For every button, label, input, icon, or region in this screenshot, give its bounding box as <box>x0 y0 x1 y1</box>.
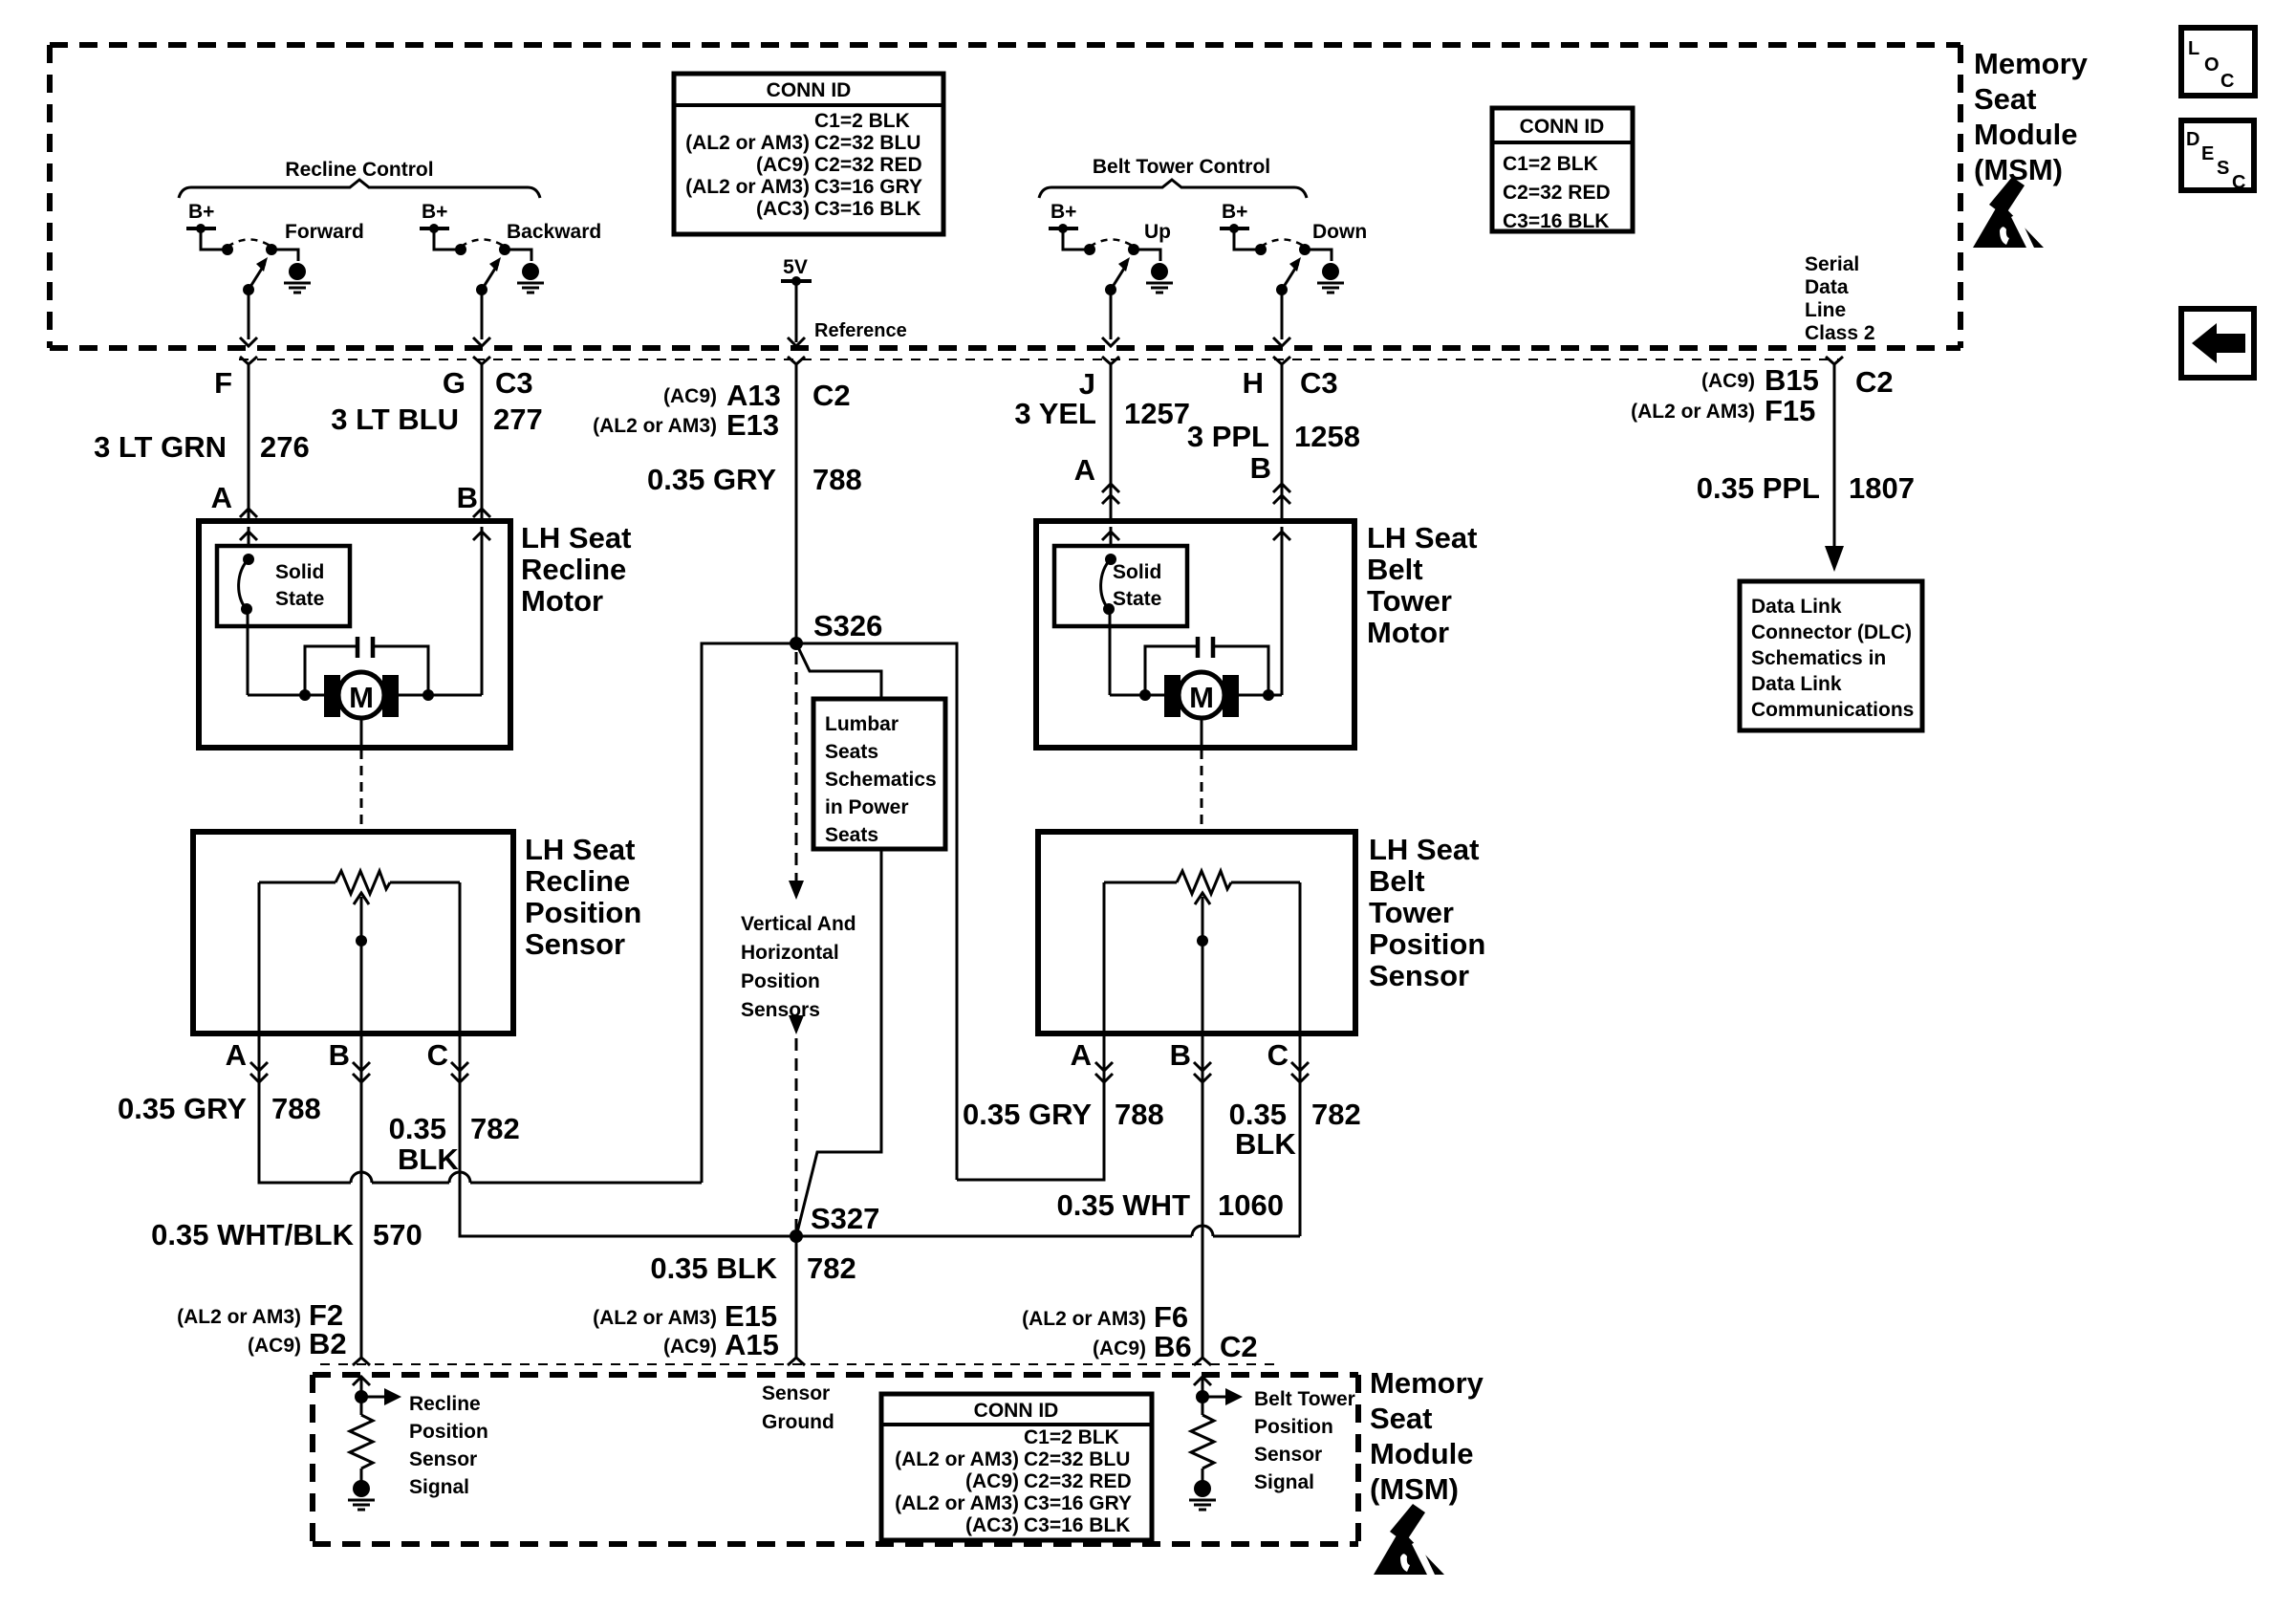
switch S2 Backward (recline) with B+ feed and ground <box>420 201 601 346</box>
wire: belt tower sensor pin B signal down to MSM pin F6/B6 (1060 WHT) <box>1202 1034 1204 1358</box>
connector C3 label (right) <box>1300 366 1338 400</box>
svg-text:LH Seat: LH Seat <box>525 833 635 866</box>
ESD sensitive device symbol (top) <box>1973 177 2044 248</box>
wire: S326 right branch to belt tower sensor pin A (788 GRY) <box>796 643 1104 1180</box>
svg-text:Tower: Tower <box>1369 896 1454 929</box>
svg-text:Memory: Memory <box>1370 1366 1484 1400</box>
svg-text:C3=16 GRY: C3=16 GRY <box>1024 1492 1132 1514</box>
svg-text:Belt: Belt <box>1369 864 1425 898</box>
wire exit chevrons at sensor pin belt C <box>1291 1062 1309 1082</box>
svg-text:BLK: BLK <box>398 1142 459 1176</box>
svg-text:C: C <box>427 1038 448 1072</box>
svg-text:Schematics in: Schematics in <box>1751 647 1886 669</box>
svg-text:S327: S327 <box>811 1202 879 1235</box>
wire H to belt tower motor pin B <box>1273 375 1290 521</box>
pin E13 label (AL2 or AM3) <box>593 408 779 442</box>
LOC nav box <box>2181 28 2255 96</box>
connector fork at MSM pin J <box>1102 357 1119 377</box>
svg-text:Solid: Solid <box>275 561 324 583</box>
svg-text:M: M <box>349 681 374 714</box>
svg-text:1060: 1060 <box>1218 1188 1284 1222</box>
connector fork at MSM pin H <box>1273 357 1290 377</box>
svg-text:3 PPL: 3 PPL <box>1187 420 1269 453</box>
switch S4 Down (belt tower) with B+ feed and ground <box>1220 201 1367 346</box>
svg-text:Module: Module <box>1370 1437 1474 1470</box>
svg-text:F: F <box>214 366 232 400</box>
motor pin A label (belt tower) <box>1074 453 1095 487</box>
pin G label <box>443 366 466 400</box>
svg-text:G: G <box>443 366 466 400</box>
svg-text:Recline: Recline <box>525 864 630 898</box>
mechanical link recline motor to position sensor (dashed) <box>360 750 363 832</box>
svg-text:B: B <box>1250 451 1271 485</box>
svg-text:C1=2 BLK: C1=2 BLK <box>1024 1426 1119 1448</box>
svg-text:Recline: Recline <box>409 1393 481 1415</box>
svg-text:Recline: Recline <box>521 553 626 586</box>
wire G to recline motor pin B <box>473 375 490 521</box>
Memory Seat Module (MSM) title (top right) <box>1974 47 2089 186</box>
5V reference supply symbol <box>781 256 812 286</box>
svg-text:Serial: Serial <box>1805 253 1859 275</box>
svg-text:Motor: Motor <box>1367 616 1449 649</box>
svg-text:0.35 GRY: 0.35 GRY <box>963 1098 1092 1131</box>
svg-text:Motor: Motor <box>521 584 603 618</box>
svg-text:C2: C2 <box>1220 1330 1258 1363</box>
svg-text:Up: Up <box>1144 221 1171 243</box>
Memory Seat Module (MSM) title (bottom right) <box>1370 1366 1484 1506</box>
back arrow nav box <box>2181 309 2254 378</box>
wire: recline sensor pin C to S327 (782 BLK) <box>460 1033 796 1236</box>
svg-text:(AL2 or AM3): (AL2 or AM3) <box>685 176 810 198</box>
svg-text:F15: F15 <box>1765 394 1815 427</box>
svg-text:D: D <box>2186 129 2199 150</box>
svg-text:C3=16 BLK: C3=16 BLK <box>1024 1514 1130 1536</box>
svg-text:C2=32 RED: C2=32 RED <box>1503 182 1611 204</box>
LH Seat Belt Tower Position Sensor block (potentiometer with wiper) <box>1038 832 1355 1033</box>
LH Seat Belt Tower Position Sensor label <box>1369 833 1485 992</box>
svg-text:Vertical And: Vertical And <box>741 913 856 935</box>
pin E15 label (AL2 or AM3) <box>593 1299 777 1333</box>
S326 label <box>813 609 882 642</box>
recline sensor pin B label <box>329 1038 350 1072</box>
wire exit chevrons at sensor pin recline C <box>451 1062 468 1082</box>
svg-text:C: C <box>2232 172 2245 193</box>
svg-text:0.35 PPL: 0.35 PPL <box>1697 471 1820 505</box>
svg-text:Module: Module <box>1974 118 2078 151</box>
svg-text:(AC3): (AC3) <box>965 1514 1019 1536</box>
svg-text:1258: 1258 <box>1294 420 1360 453</box>
svg-text:Solid: Solid <box>1113 561 1161 583</box>
svg-text:in Power: in Power <box>825 796 909 818</box>
belt tower sensor pin C label <box>1267 1038 1289 1072</box>
ESD sensitive device symbol (bottom) <box>1374 1504 1444 1575</box>
dashed reference feed to vertical/horizontal position sensors <box>789 652 804 900</box>
svg-text:C: C <box>2220 71 2234 92</box>
svg-text:Belt Tower Control: Belt Tower Control <box>1093 156 1270 178</box>
svg-text:C2=32 RED: C2=32 RED <box>1024 1470 1132 1492</box>
svg-text:0.35 BLK: 0.35 BLK <box>650 1251 777 1285</box>
svg-text:A15: A15 <box>725 1328 779 1361</box>
connector C2 label (bottom) <box>1220 1330 1258 1363</box>
svg-text:B: B <box>1170 1038 1191 1072</box>
svg-text:E: E <box>2201 143 2214 164</box>
svg-text:Data: Data <box>1805 276 1849 298</box>
svg-text:Seat: Seat <box>1370 1402 1432 1435</box>
svg-text:Position: Position <box>1369 927 1485 961</box>
wire label 3 YEL 1257 <box>1014 397 1190 430</box>
svg-text:Belt: Belt <box>1367 553 1423 586</box>
svg-text:0.35: 0.35 <box>1229 1098 1287 1131</box>
pin A15 label (AC9) <box>663 1328 779 1361</box>
svg-text:Backward: Backward <box>507 221 601 243</box>
svg-text:(AC9): (AC9) <box>1701 370 1755 392</box>
svg-text:Tower: Tower <box>1367 584 1452 618</box>
svg-text:Reference: Reference <box>814 320 907 341</box>
svg-text:Sensor: Sensor <box>525 927 625 961</box>
svg-text:State: State <box>1113 588 1161 610</box>
svg-text:A: A <box>226 1038 247 1072</box>
LH Seat Belt Tower Motor block (solid state switch, suppression capacitor, motor M) <box>1036 521 1354 748</box>
wire: 5V reference C2 pin down to splice S326 <box>795 375 798 643</box>
wire exit chevrons at sensor pin belt A <box>1095 1062 1113 1082</box>
svg-text:782: 782 <box>470 1112 520 1145</box>
recline sensor pin A label <box>226 1038 247 1072</box>
svg-text:CONN ID: CONN ID <box>767 79 852 101</box>
svg-text:788: 788 <box>812 463 862 496</box>
svg-text:(AL2 or AM3): (AL2 or AM3) <box>593 1307 717 1329</box>
Belt Tower Position Sensor Signal input (resistor to ground inside MSM) <box>1189 1377 1355 1510</box>
svg-text:3 LT GRN: 3 LT GRN <box>94 430 227 464</box>
svg-text:Position: Position <box>741 970 820 992</box>
svg-text:Forward: Forward <box>285 221 364 243</box>
pin F6 label (AL2 or AM3) <box>1022 1300 1188 1334</box>
wire label 0.35 WHT/BLK 570 <box>151 1218 422 1251</box>
wire label 0.35 PPL 1807 <box>1697 471 1915 505</box>
Recline Position Sensor Signal input (resistor to ground inside MSM) <box>348 1377 488 1510</box>
mechanical link belt tower motor to position sensor (dashed) <box>1201 750 1203 832</box>
wire label 0.35 GRY 788 (reference) <box>647 463 862 496</box>
svg-text:Line: Line <box>1805 299 1846 321</box>
bottom connector fork at pin F6/B6 <box>1194 1358 1211 1365</box>
pin F2 label (AL2 or AM3) <box>177 1298 343 1332</box>
svg-text:Signal: Signal <box>1254 1471 1314 1493</box>
svg-text:Down: Down <box>1312 221 1367 243</box>
wire: S327 to belt tower sensor pin C (782 BLK) <box>796 1034 1300 1236</box>
LH Seat Recline Motor block (solid state switch, suppression capacitor, motor M) <box>199 521 510 748</box>
svg-text:(AL2 or AM3): (AL2 or AM3) <box>1022 1308 1146 1330</box>
svg-text:782: 782 <box>1311 1098 1361 1131</box>
pin A13 label (AC9) <box>663 379 781 412</box>
svg-text:Ground: Ground <box>762 1411 834 1433</box>
wire label 0.35 BLK 782 (sensor ground) <box>650 1251 856 1285</box>
svg-text:0.35 GRY: 0.35 GRY <box>118 1092 247 1125</box>
svg-text:(MSM): (MSM) <box>1370 1472 1459 1506</box>
svg-text:(AC9): (AC9) <box>1093 1338 1146 1360</box>
svg-text:A: A <box>1071 1038 1092 1072</box>
wire label 3 LT BLU 277 <box>331 402 542 436</box>
connector fork at MSM pin A13/E13 <box>788 357 805 377</box>
svg-text:C2=32 RED: C2=32 RED <box>814 154 922 176</box>
Belt Tower Control brace <box>1039 180 1307 198</box>
svg-text:Sensor: Sensor <box>409 1448 477 1470</box>
svg-text:C2: C2 <box>812 379 851 412</box>
Serial Data Line Class 2 label <box>1805 253 1875 344</box>
connector C3 label (left) <box>495 366 533 400</box>
Sensor Ground label <box>762 1382 834 1433</box>
pin B15 label (AC9) <box>1701 363 1819 397</box>
motor pin A label (recline) <box>211 481 232 514</box>
svg-text:LH Seat: LH Seat <box>1367 521 1477 555</box>
svg-text:B: B <box>457 481 478 514</box>
belt tower sensor pin A label <box>1071 1038 1092 1072</box>
svg-text:(AL2 or AM3): (AL2 or AM3) <box>895 1448 1019 1470</box>
svg-text:0.35 WHT: 0.35 WHT <box>1056 1188 1190 1222</box>
wire label 0.35 GRY 788 (belt tower sensor A) <box>963 1098 1164 1131</box>
wire: recline sensor pin B signal down to MSM pin F2/B2 (570 WHT/BLK) <box>360 1033 363 1358</box>
Belt Tower Control label <box>1093 156 1270 178</box>
CONN ID table (top right) <box>1492 108 1633 232</box>
svg-text:Memory: Memory <box>1974 47 2089 80</box>
svg-text:M: M <box>1189 681 1214 714</box>
svg-text:A13: A13 <box>726 379 781 412</box>
wire exit chevrons at sensor pin recline A <box>250 1062 268 1082</box>
svg-text:Connector (DLC): Connector (DLC) <box>1751 621 1912 643</box>
bottom connector fork at pin E15/A15 <box>788 1358 805 1365</box>
svg-text:(AL2 or AM3): (AL2 or AM3) <box>895 1492 1019 1514</box>
svg-text:B2: B2 <box>309 1327 347 1360</box>
svg-text:(AC9): (AC9) <box>756 154 810 176</box>
svg-text:5V: 5V <box>783 256 808 278</box>
connector C2 label (middle) <box>812 379 851 412</box>
svg-text:C2: C2 <box>1855 365 1894 399</box>
svg-text:H: H <box>1243 366 1264 400</box>
splice S327 <box>790 1229 803 1243</box>
svg-text:F6: F6 <box>1154 1300 1188 1334</box>
svg-text:Seats: Seats <box>825 824 878 846</box>
Recline Control label <box>285 159 433 181</box>
svg-text:B+: B+ <box>188 201 214 223</box>
svg-text:0.35 GRY: 0.35 GRY <box>647 463 776 496</box>
svg-text:B+: B+ <box>1222 201 1247 223</box>
pin F15 label (AL2 or AM3) <box>1631 394 1815 427</box>
svg-text:Data Link: Data Link <box>1751 596 1842 618</box>
svg-text:Horizontal: Horizontal <box>741 942 839 964</box>
svg-text:0.35 WHT/BLK: 0.35 WHT/BLK <box>151 1218 354 1251</box>
svg-text:Sensor: Sensor <box>1254 1444 1322 1466</box>
wire label 0.35 BLK 782 (recline sensor C) <box>389 1112 520 1176</box>
Memory Seat Module (MSM) top dashed boundary box <box>50 45 1960 348</box>
pin B6 label (AC9) <box>1093 1330 1192 1363</box>
wire label 0.35 WHT 1060 <box>1056 1188 1284 1222</box>
svg-text:C2=32 BLU: C2=32 BLU <box>814 132 921 154</box>
svg-text:Sensor: Sensor <box>1369 959 1469 992</box>
connector fork at MSM pin G <box>473 357 490 377</box>
svg-text:S326: S326 <box>813 609 882 642</box>
wire: S326 to lumbar seats schematic (solid jog) <box>796 643 881 699</box>
svg-text:Data Link: Data Link <box>1751 673 1842 695</box>
wire: lumbar schematic ground return to S327 <box>796 849 881 1236</box>
wire exit chevrons at sensor pin recline B <box>353 1062 370 1082</box>
LH Seat Recline Position Sensor label <box>525 833 641 961</box>
svg-text:C3: C3 <box>1300 366 1338 400</box>
svg-text:Position: Position <box>525 896 641 929</box>
svg-text:Belt Tower: Belt Tower <box>1254 1388 1355 1410</box>
svg-text:(AC9): (AC9) <box>663 385 717 407</box>
svg-text:O: O <box>2204 54 2220 76</box>
svg-text:C3=16 GRY: C3=16 GRY <box>814 176 922 198</box>
svg-text:CONN ID: CONN ID <box>1520 116 1605 138</box>
wire: serial data line class 2 to DLC (1807 PPL) <box>1825 375 1844 572</box>
connector fork at MSM pin F <box>240 357 257 377</box>
pin F label <box>214 366 232 400</box>
svg-text:B+: B+ <box>1051 201 1076 223</box>
Data Link Connector callout box <box>1740 581 1922 730</box>
bottom inline harness connector dashed line (C2 connector face) <box>320 1363 1281 1365</box>
svg-text:C3=16 BLK: C3=16 BLK <box>1503 210 1609 232</box>
svg-text:B+: B+ <box>422 201 447 223</box>
wire: S326 left branch to recline sensor pin A (788 GRY) <box>259 643 796 1183</box>
svg-text:B: B <box>329 1038 350 1072</box>
svg-text:Seats: Seats <box>825 741 878 763</box>
wire label 3 PPL 1258 <box>1187 420 1360 453</box>
wire label 0.35 BLK 782 (belt tower sensor C) <box>1229 1098 1361 1161</box>
svg-text:3 YEL: 3 YEL <box>1014 397 1096 430</box>
svg-text:(AC3): (AC3) <box>756 198 810 220</box>
Reference label <box>814 320 907 341</box>
bottom connector fork at pin F2/B2 <box>353 1358 370 1365</box>
svg-text:1257: 1257 <box>1124 397 1190 430</box>
Lumbar Seats Schematics callout box <box>813 699 945 849</box>
svg-text:Sensor: Sensor <box>762 1382 830 1404</box>
svg-text:A: A <box>1074 453 1095 487</box>
Recline Control brace <box>179 180 540 198</box>
svg-text:(AL2 or AM3): (AL2 or AM3) <box>1631 401 1755 423</box>
recline sensor pin C label <box>427 1038 448 1072</box>
belt tower sensor pin B label <box>1170 1038 1191 1072</box>
DESC nav box <box>2181 120 2254 193</box>
pin J label <box>1079 367 1095 401</box>
svg-text:Recline Control: Recline Control <box>285 159 433 181</box>
svg-text:(AC9): (AC9) <box>663 1336 717 1358</box>
motor pin B label (belt tower) <box>1250 451 1271 485</box>
switch S1 Forward (recline) with B+ feed and ground <box>186 201 364 346</box>
svg-text:(AC9): (AC9) <box>248 1335 301 1357</box>
LH Seat Belt Tower Motor label <box>1367 521 1477 649</box>
svg-text:3 LT BLU: 3 LT BLU <box>331 402 459 436</box>
connector C2 label (right) <box>1855 365 1894 399</box>
svg-text:788: 788 <box>1115 1098 1164 1131</box>
svg-text:Schematics: Schematics <box>825 769 937 791</box>
svg-text:C3: C3 <box>495 366 533 400</box>
svg-text:E13: E13 <box>726 408 779 442</box>
svg-text:Signal: Signal <box>409 1476 469 1498</box>
svg-text:(AC9): (AC9) <box>965 1470 1019 1492</box>
Vertical And Horizontal Position Sensors label <box>741 913 856 1021</box>
wire label 0.35 GRY 788 (recline sensor A) <box>118 1092 321 1125</box>
svg-text:C3=16 BLK: C3=16 BLK <box>814 198 921 220</box>
svg-text:C1=2 BLK: C1=2 BLK <box>814 110 910 132</box>
svg-text:276: 276 <box>260 430 310 464</box>
svg-text:277: 277 <box>493 402 543 436</box>
svg-text:BLK: BLK <box>1235 1127 1296 1161</box>
pin H label <box>1243 366 1264 400</box>
svg-text:B15: B15 <box>1765 363 1819 397</box>
CONN ID table (top middle) <box>674 74 943 234</box>
svg-text:LH Seat: LH Seat <box>521 521 631 555</box>
svg-text:Lumbar: Lumbar <box>825 713 899 735</box>
svg-text:Seat: Seat <box>1974 82 2036 116</box>
svg-text:A: A <box>211 481 232 514</box>
LH Seat Recline Position Sensor block (potentiometer with wiper) <box>193 832 513 1033</box>
svg-text:Position: Position <box>409 1421 488 1443</box>
wire: sensor ground from S327 down to MSM pin E15/A15 (782 BLK) <box>795 1236 798 1358</box>
svg-text:0.35: 0.35 <box>389 1112 446 1145</box>
switch S3 Up (belt tower) with B+ feed and ground <box>1049 201 1173 346</box>
svg-text:LH Seat: LH Seat <box>1369 833 1479 866</box>
svg-text:(AL2 or AM3): (AL2 or AM3) <box>177 1306 301 1328</box>
svg-text:Communications: Communications <box>1751 699 1914 721</box>
dashed sensor ground return from position sensors to S327 <box>789 1015 804 1229</box>
LH Seat Recline Motor label <box>521 521 631 618</box>
connector fork at MSM pin B15/F15 <box>1826 357 1843 377</box>
svg-text:S: S <box>2217 158 2229 179</box>
svg-text:C: C <box>1267 1038 1289 1072</box>
svg-text:1807: 1807 <box>1849 471 1915 505</box>
wire label 3 LT GRN 276 <box>94 430 310 464</box>
svg-text:L: L <box>2188 38 2199 59</box>
wire: 5V reference from MSM to connector C2 pin <box>788 281 805 346</box>
CONN ID table (bottom) <box>881 1394 1152 1540</box>
svg-text:782: 782 <box>807 1251 856 1285</box>
motor pin B label (recline) <box>457 481 478 514</box>
wire exit chevrons at sensor pin belt B <box>1194 1062 1211 1082</box>
svg-text:C2=32 BLU: C2=32 BLU <box>1024 1448 1130 1470</box>
wire F to recline motor pin A <box>240 375 257 521</box>
top inline harness connector dashed line (C2/C3 connector face) <box>239 359 1840 360</box>
svg-text:B6: B6 <box>1154 1330 1192 1363</box>
svg-text:(AL2 or AM3): (AL2 or AM3) <box>593 415 717 437</box>
svg-text:(AL2 or AM3): (AL2 or AM3) <box>685 132 810 154</box>
Memory Seat Module (MSM) bottom dashed boundary box <box>313 1375 1358 1544</box>
svg-text:Position: Position <box>1254 1416 1333 1438</box>
svg-text:C1=2 BLK: C1=2 BLK <box>1503 153 1598 175</box>
svg-text:J: J <box>1079 367 1095 401</box>
svg-text:570: 570 <box>373 1218 422 1251</box>
wire J to belt tower motor pin A <box>1102 375 1119 521</box>
svg-text:CONN ID: CONN ID <box>974 1400 1059 1422</box>
svg-text:Class 2: Class 2 <box>1805 322 1875 344</box>
S327 label <box>811 1202 879 1235</box>
svg-text:State: State <box>275 588 324 610</box>
pin B2 label (AC9) <box>248 1327 347 1360</box>
svg-text:788: 788 <box>271 1092 321 1125</box>
svg-text:Sensors: Sensors <box>741 999 820 1021</box>
splice S326 <box>790 637 803 650</box>
